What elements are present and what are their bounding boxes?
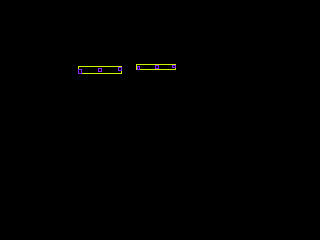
component 2 right grip (endpoint handle): [172, 65, 176, 68]
component 1 body (IEC rectangle outline, selected): [78, 66, 122, 74]
component 1 right grip (endpoint handle): [118, 67, 122, 71]
component 2 body (IEC rectangle outline, selected): [136, 64, 176, 70]
component 1 left grip (endpoint handle): [78, 69, 82, 74]
component 2 left grip (endpoint handle): [137, 66, 140, 70]
component 2 middle grip (midpoint handle): [155, 65, 159, 69]
component 1 middle grip (midpoint handle): [98, 68, 102, 72]
